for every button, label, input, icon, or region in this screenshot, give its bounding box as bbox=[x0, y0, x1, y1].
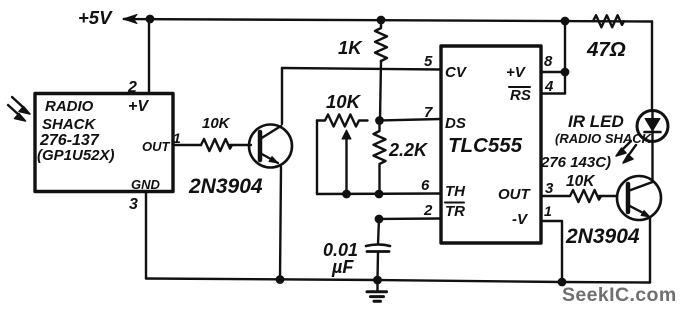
wire TH line to TLC555 pin 6 bbox=[317, 192, 441, 195]
svg-text:(RADIO SHACK: (RADIO SHACK bbox=[555, 131, 653, 146]
wire ground rail bbox=[146, 279, 650, 283]
svg-text:+V: +V bbox=[128, 98, 149, 115]
svg-text:TR: TR bbox=[445, 203, 465, 220]
svg-text:4: 4 bbox=[544, 78, 554, 95]
svg-text:2.2K: 2.2K bbox=[388, 140, 429, 160]
svg-text:TLC555: TLC555 bbox=[448, 134, 523, 157]
wire Q1 emitter down to ground rail bbox=[280, 167, 281, 280]
svg-text:OUT: OUT bbox=[498, 186, 532, 203]
svg-text:TH: TH bbox=[445, 183, 466, 200]
wire sensor +V pin 2 vertical bbox=[148, 19, 150, 93]
svg-text:2: 2 bbox=[423, 202, 433, 219]
LED emission arrow 1 bbox=[616, 141, 631, 156]
junction 2.2K bottom on TH line bbox=[375, 190, 384, 199]
wire DS line to TLC555 pin 7 bbox=[380, 119, 442, 121]
wire pin 3 OUT to R 10K bbox=[541, 195, 570, 197]
resistor 10K (Q2 base) bbox=[570, 190, 601, 202]
svg-text:10K: 10K bbox=[326, 91, 362, 112]
wire CV line to TLC555 pin 5 bbox=[282, 68, 441, 70]
resistor 10K (Q1 base) bbox=[201, 139, 232, 151]
junction pin8 node bbox=[561, 68, 570, 77]
pin label TR with overline bbox=[445, 203, 465, 221]
junction 1K on rail bbox=[377, 16, 386, 25]
svg-text:8: 8 bbox=[544, 53, 553, 70]
light input arrow 2 bbox=[8, 105, 26, 121]
wire Q2 emitter down to rail corner bbox=[649, 218, 651, 283]
wire TR line to TLC555 pin 2 bbox=[379, 217, 441, 220]
LED emission arrow 2 bbox=[623, 145, 636, 163]
wire Q1 collector up to CV line bbox=[281, 68, 283, 124]
svg-text:GND: GND bbox=[131, 177, 161, 192]
wire capacitor to rail bbox=[376, 252, 379, 280]
wire R 10K to Q1 base bbox=[230, 144, 251, 146]
svg-text:2N3904: 2N3904 bbox=[565, 225, 640, 248]
svg-text:1: 1 bbox=[544, 203, 552, 219]
resistor 2.2K bbox=[374, 125, 386, 194]
svg-text:3: 3 bbox=[129, 196, 138, 213]
light input arrow 1 bbox=[12, 97, 30, 114]
capacitor C 0.01uF bbox=[366, 245, 390, 252]
svg-text:DS: DS bbox=[445, 115, 466, 132]
pin label RS with overline bbox=[509, 87, 531, 104]
resistor 1K bbox=[375, 24, 387, 62]
svg-text:10K: 10K bbox=[566, 173, 596, 190]
svg-text:CV: CV bbox=[445, 64, 468, 81]
svg-text:3: 3 bbox=[545, 180, 554, 197]
junction rail to 47 ohm bbox=[561, 17, 570, 26]
svg-text:1K: 1K bbox=[338, 37, 363, 58]
transistor Q1 2N3904 bbox=[249, 125, 292, 168]
wire pin 1 -V bbox=[541, 221, 562, 282]
junction DS node bbox=[375, 116, 384, 125]
svg-text:10K: 10K bbox=[202, 115, 231, 132]
wire +5V top rail bbox=[124, 19, 652, 22]
junction -V on rail bbox=[558, 278, 567, 287]
wire 1K to DS node bbox=[380, 61, 381, 120]
svg-text:OUT: OUT bbox=[142, 139, 171, 154]
svg-text:RS: RS bbox=[510, 87, 531, 104]
wire rail corner down to LED bbox=[651, 22, 653, 112]
svg-text:µF: µF bbox=[331, 257, 354, 277]
svg-text:SHACK: SHACK bbox=[42, 116, 97, 133]
junction sensor +V on rail bbox=[146, 15, 155, 24]
wire pot left leg down bbox=[316, 121, 318, 195]
svg-text:276 143C): 276 143C) bbox=[540, 154, 611, 171]
svg-text:(GP1U52X): (GP1U52X) bbox=[37, 147, 115, 164]
wire LED cathode to Q2 collector bbox=[651, 142, 653, 183]
junction capacitor on rail bbox=[373, 276, 382, 285]
svg-text:SeekIC.com: SeekIC.com bbox=[562, 284, 677, 306]
node +5V arrow head bbox=[123, 15, 137, 24]
module U1 Radio Shack 276-137 IR detector box bbox=[35, 94, 173, 192]
svg-text:47Ω: 47Ω bbox=[586, 38, 626, 61]
wire pins 8/4 up to rail bbox=[564, 21, 566, 94]
transistor Q2 2N3904 bbox=[617, 176, 661, 220]
junction TR node bbox=[375, 215, 384, 224]
junction pot wiper on TH line bbox=[342, 190, 351, 199]
svg-text:7: 7 bbox=[424, 104, 433, 121]
svg-text:2N3904: 2N3904 bbox=[188, 175, 263, 198]
IC U1 TLC555 box bbox=[441, 46, 541, 243]
wire pin 4 RS bbox=[541, 92, 565, 94]
svg-text:5: 5 bbox=[424, 53, 433, 70]
svg-text:1: 1 bbox=[173, 130, 181, 146]
svg-text:IR LED: IR LED bbox=[568, 112, 624, 131]
ground bbox=[367, 280, 387, 301]
svg-text:+5V: +5V bbox=[78, 7, 113, 28]
wire TR node down to capacitor bbox=[378, 219, 379, 244]
svg-text:6: 6 bbox=[421, 177, 430, 194]
wire R 10K to Q2 base bbox=[599, 195, 617, 197]
junction Q1 emitter on rail bbox=[276, 275, 285, 284]
wire sensor OUT to R 10K bbox=[173, 144, 201, 146]
svg-text:+V: +V bbox=[506, 64, 527, 81]
potentiometer 10K bbox=[317, 115, 368, 192]
svg-text:-V: -V bbox=[512, 211, 529, 228]
wire pin 8 +V bbox=[541, 71, 565, 73]
resistor 47 ohm bbox=[593, 15, 624, 27]
LED IR 276-143C bbox=[637, 111, 668, 142]
svg-text:RADIO: RADIO bbox=[45, 98, 94, 115]
wire sensor GND pin 3 down bbox=[145, 192, 147, 279]
